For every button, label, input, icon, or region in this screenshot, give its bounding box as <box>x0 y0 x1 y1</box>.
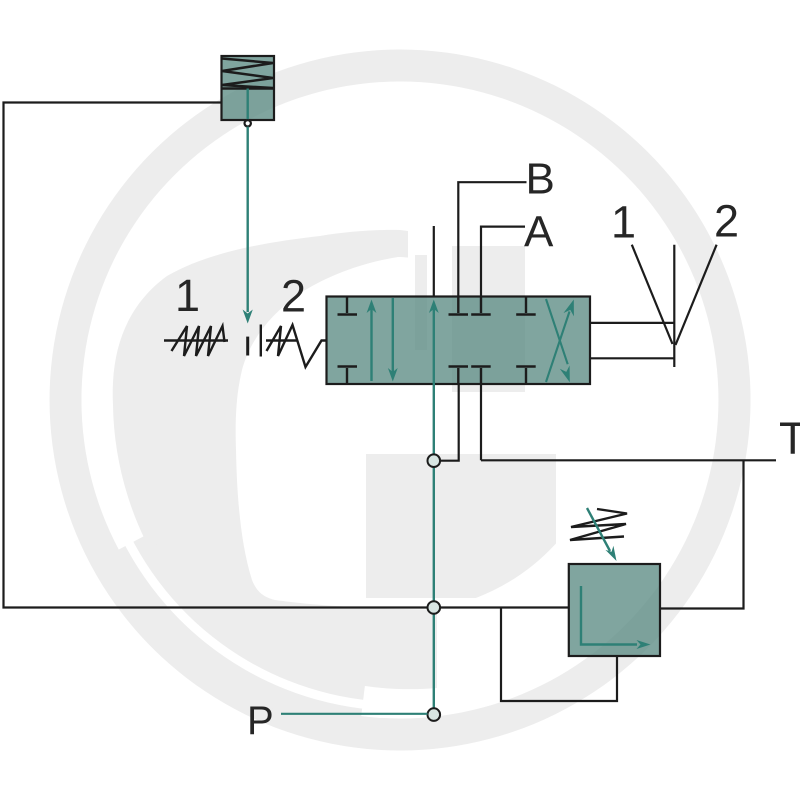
P supply line <box>281 713 428 715</box>
s1 down arrow <box>388 298 398 382</box>
wire: B port up <box>458 182 526 296</box>
block A <box>452 246 525 392</box>
node junction 1 <box>428 454 441 467</box>
G spiral arm <box>113 230 437 689</box>
svg-text:A: A <box>524 208 554 257</box>
svg-text:1: 1 <box>611 197 636 248</box>
spiral descender sliver <box>415 255 427 350</box>
A top port <box>480 297 482 313</box>
outer thin ring <box>50 50 751 751</box>
relief valve divider <box>222 87 275 90</box>
svg-text:1: 1 <box>175 270 200 321</box>
s1 up arrow <box>367 300 377 382</box>
node junction 2 <box>428 601 441 614</box>
wire: B port down <box>440 384 459 461</box>
s3 bottom port <box>525 368 527 384</box>
white spiral gap swoosh SW <box>104 493 374 710</box>
main pressure line with arrow into valve <box>429 300 439 715</box>
spring 2 symbol <box>261 325 327 368</box>
flow control adjust arrow <box>587 508 617 561</box>
node junction 3 P <box>428 708 441 721</box>
flow control L arrow <box>581 586 651 649</box>
s1 bottom port <box>346 368 348 384</box>
pilot dash <box>246 337 249 356</box>
B top port <box>457 297 459 313</box>
svg-text:T: T <box>779 413 800 464</box>
flow control spring <box>570 509 627 540</box>
lever diagonal 2 <box>676 245 717 345</box>
lever diagonal 1 <box>632 245 673 344</box>
svg-text:B: B <box>526 155 555 204</box>
directional valve body <box>327 297 591 385</box>
port T symbols <box>338 297 536 384</box>
svg-text:2: 2 <box>281 271 306 322</box>
s3 top port <box>525 297 527 313</box>
s1 top port <box>346 297 348 313</box>
SW outer bulge <box>105 533 365 732</box>
spring 1 symbol <box>164 326 228 356</box>
pilot line down <box>246 127 248 312</box>
watermark G logo background <box>50 50 751 751</box>
svg-text:2: 2 <box>714 196 739 247</box>
wire: relief valve to left rail <box>4 103 569 608</box>
flow control valve body <box>569 564 660 656</box>
wire: A port up <box>481 227 525 297</box>
wire: T down to flow valve <box>660 460 744 608</box>
relief valve pilot line inside <box>246 89 248 121</box>
relief valve V1 body <box>222 56 275 324</box>
B bottom port <box>457 368 459 384</box>
pilot arrowhead <box>243 310 253 324</box>
svg-text:P: P <box>247 699 274 743</box>
wire: A port down <box>480 384 482 460</box>
actuator stubs right <box>590 245 717 367</box>
wire: T line <box>481 459 776 461</box>
relief valve drain circle <box>245 120 251 126</box>
block B <box>366 454 556 598</box>
lever vertical <box>673 245 675 367</box>
wire: bottom junction to flow valve bottom <box>501 608 617 702</box>
wire: vent line above valve <box>433 226 435 297</box>
A bottom port <box>480 368 482 384</box>
s3 cross arrows <box>546 299 574 382</box>
relief valve spring <box>222 59 273 89</box>
